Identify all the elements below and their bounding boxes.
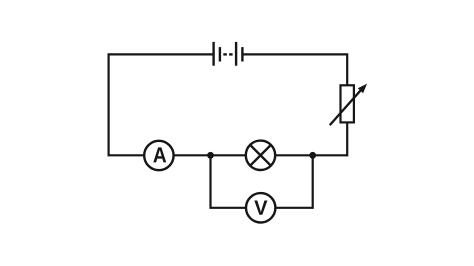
voltmeter: circle xyxy=(246,193,275,222)
battery: dashed link (omitted cells) xyxy=(223,53,232,55)
battery: cell 1 long plate xyxy=(212,42,214,66)
ammeter: circle xyxy=(144,141,173,170)
variable resistor: body rectangle xyxy=(341,85,354,122)
lamp: cross stroke 2 xyxy=(250,145,271,166)
wire: top-right segment (battery to top-right corner) and right side upper xyxy=(242,54,347,85)
lamp: circle xyxy=(246,141,275,170)
junction: left node dot xyxy=(207,152,214,159)
battery: cell 1 short plate xyxy=(219,47,221,61)
ammeter: label A xyxy=(153,147,166,162)
wire: voltmeter branch (down from left junction, across, up to right junction) xyxy=(211,155,313,208)
battery: cell 2 short plate xyxy=(241,47,243,61)
junction: right node dot xyxy=(309,152,316,159)
battery: cell 2 long plate xyxy=(235,42,237,66)
voltmeter: label V xyxy=(254,201,267,215)
wire: right side lower (resistor to bottom-right corner) xyxy=(346,122,348,156)
lamp: cross stroke 1 xyxy=(250,145,271,166)
variable resistor: diagonal arrow shaft xyxy=(330,89,362,125)
variable resistor: arrowhead xyxy=(358,84,367,94)
wire: bottom main wire (left corner to bottom-right corner) xyxy=(108,154,348,156)
wire: left vertical + top-left segment (battery to top-left corner, down left side) xyxy=(109,54,214,155)
